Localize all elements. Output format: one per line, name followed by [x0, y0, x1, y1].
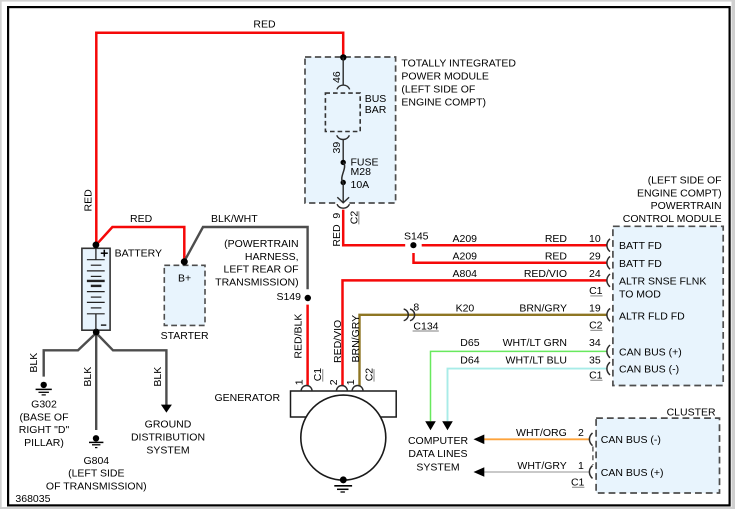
svg-text:8: 8 [413, 302, 419, 314]
svg-text:(BASE OF: (BASE OF [19, 411, 68, 423]
svg-text:BATT FD: BATT FD [619, 240, 662, 252]
svg-text:29: 29 [589, 251, 601, 263]
svg-text:WHT/LT GRN: WHT/LT GRN [503, 337, 567, 349]
svg-text:CAN BUS (-): CAN BUS (-) [619, 364, 679, 376]
svg-text:BATT FD: BATT FD [619, 258, 662, 270]
svg-text:(LEFT SIDE: (LEFT SIDE [68, 468, 124, 480]
svg-text:D64: D64 [460, 354, 479, 366]
svg-text:WHT/LT BLU: WHT/LT BLU [506, 354, 567, 366]
svg-text:TO MOD: TO MOD [619, 289, 661, 301]
svg-text:RED/VIO: RED/VIO [332, 320, 344, 363]
svg-text:C134: C134 [413, 320, 438, 332]
svg-text:M28: M28 [351, 166, 372, 178]
svg-text:RED/BLK: RED/BLK [293, 314, 305, 359]
svg-text:RED: RED [545, 233, 568, 245]
svg-text:2: 2 [328, 379, 340, 385]
svg-text:LEFT REAR OF: LEFT REAR OF [224, 264, 299, 276]
svg-text:DATA LINES: DATA LINES [408, 448, 467, 460]
svg-text:34: 34 [589, 337, 601, 349]
svg-text:35: 35 [589, 354, 601, 366]
svg-text:COMPUTER: COMPUTER [408, 435, 469, 447]
svg-text:POWERTRAIN: POWERTRAIN [651, 200, 722, 212]
svg-text:2: 2 [578, 427, 584, 439]
svg-text:10A: 10A [351, 179, 370, 191]
svg-text:SYSTEM: SYSTEM [416, 461, 459, 473]
svg-text:24: 24 [589, 268, 601, 280]
svg-text:BRN/GRY: BRN/GRY [519, 303, 567, 315]
svg-text:CLUSTER: CLUSTER [667, 406, 716, 418]
svg-text:39: 39 [331, 142, 343, 154]
svg-text:BATTERY: BATTERY [115, 248, 162, 260]
svg-text:WHT/GRY: WHT/GRY [517, 460, 566, 472]
svg-text:RIGHT "D": RIGHT "D" [19, 424, 70, 436]
svg-text:OF TRANSMISSION): OF TRANSMISSION) [46, 480, 147, 492]
svg-text:CONTROL MODULE: CONTROL MODULE [623, 213, 722, 225]
svg-text:BAR: BAR [365, 104, 387, 116]
svg-text:G804: G804 [83, 455, 109, 467]
svg-text:9: 9 [331, 213, 343, 219]
svg-text:(POWERTRAIN: (POWERTRAIN [224, 238, 298, 250]
svg-text:BRN/GRY: BRN/GRY [350, 315, 362, 363]
svg-text:C1: C1 [589, 369, 603, 381]
svg-text:PILLAR): PILLAR) [24, 437, 64, 449]
svg-text:C2: C2 [364, 368, 376, 382]
svg-text:1: 1 [578, 460, 584, 472]
svg-text:POWER MODULE: POWER MODULE [401, 71, 489, 83]
svg-text:368035: 368035 [15, 493, 50, 505]
svg-text:GENERATOR: GENERATOR [215, 392, 281, 404]
svg-text:TRANSMISSION): TRANSMISSION) [215, 277, 298, 289]
svg-text:D65: D65 [460, 337, 479, 349]
svg-text:BLK/WHT: BLK/WHT [211, 213, 258, 225]
svg-text:C2: C2 [589, 319, 603, 331]
svg-text:A209: A209 [453, 251, 478, 263]
svg-text:C1: C1 [589, 285, 603, 297]
svg-text:GROUND: GROUND [145, 419, 192, 431]
svg-text:RED: RED [130, 213, 153, 225]
svg-text:BLK: BLK [152, 367, 164, 387]
svg-text:C2: C2 [349, 211, 361, 225]
svg-text:19: 19 [589, 303, 601, 315]
svg-text:ALTR SNSE FLNK: ALTR SNSE FLNK [619, 276, 706, 288]
svg-text:RED: RED [545, 251, 568, 263]
svg-text:ALTR FLD FD: ALTR FLD FD [619, 310, 685, 322]
svg-text:1: 1 [345, 379, 357, 385]
svg-text:CAN BUS (+): CAN BUS (+) [601, 467, 664, 479]
svg-text:10: 10 [589, 233, 601, 245]
svg-text:RED: RED [253, 18, 276, 30]
svg-text:BLK: BLK [28, 353, 40, 373]
svg-text:C1: C1 [312, 368, 324, 382]
svg-text:BLK: BLK [82, 367, 94, 387]
svg-text:RED: RED [82, 189, 94, 212]
svg-text:(LEFT SIDE OF: (LEFT SIDE OF [648, 174, 722, 186]
svg-text:CAN BUS (-): CAN BUS (-) [601, 434, 661, 446]
svg-text:RED: RED [331, 224, 343, 247]
svg-text:S149: S149 [276, 291, 301, 303]
svg-text:46: 46 [331, 71, 343, 83]
svg-text:CAN BUS (+): CAN BUS (+) [619, 346, 682, 358]
svg-text:S145: S145 [404, 231, 429, 243]
svg-text:G302: G302 [31, 399, 57, 411]
svg-text:DISTRIBUTION: DISTRIBUTION [131, 432, 205, 444]
svg-text:ENGINE COMPT): ENGINE COMPT) [401, 97, 486, 109]
svg-text:RED/VIO: RED/VIO [524, 268, 567, 280]
svg-text:1: 1 [293, 379, 305, 385]
svg-text:STARTER: STARTER [161, 330, 209, 342]
svg-text:C1: C1 [571, 477, 585, 489]
svg-text:B+: B+ [178, 272, 191, 284]
svg-text:HARNESS,: HARNESS, [245, 251, 299, 263]
svg-text:A804: A804 [453, 268, 478, 280]
svg-text:(LEFT SIDE OF: (LEFT SIDE OF [401, 84, 475, 96]
svg-text:WHT/ORG: WHT/ORG [516, 427, 567, 439]
svg-text:TOTALLY INTEGRATED: TOTALLY INTEGRATED [401, 58, 516, 70]
svg-text:SYSTEM: SYSTEM [146, 444, 189, 456]
svg-text:ENGINE COMPT): ENGINE COMPT) [637, 187, 722, 199]
svg-text:A209: A209 [453, 233, 478, 245]
svg-text:K20: K20 [456, 303, 475, 315]
